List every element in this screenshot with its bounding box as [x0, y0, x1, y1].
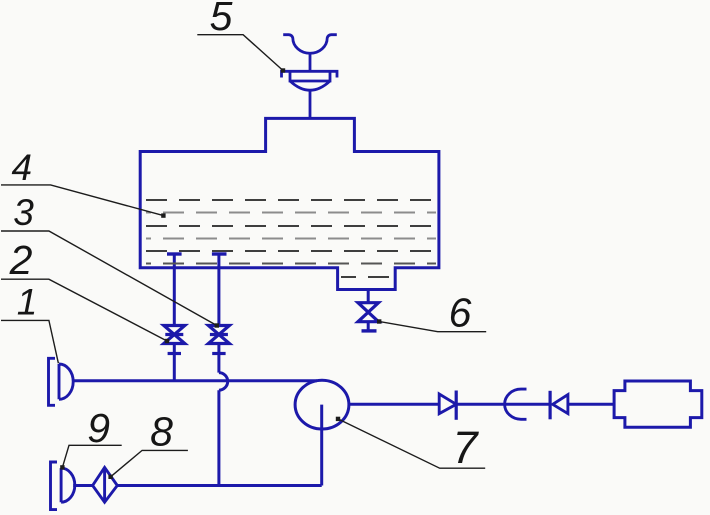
drain stem — [367, 290, 370, 303]
svg-text:3: 3 — [13, 192, 34, 233]
suction pipe B — [217, 254, 220, 326]
sump dashes — [341, 276, 393, 278]
main suction pipe — [73, 379, 318, 382]
svg-text:8: 8 — [150, 409, 173, 455]
leader 5 — [197, 35, 283, 71]
actuator block — [614, 381, 702, 427]
leader 6 — [379, 322, 486, 332]
check valve B seat bar — [548, 391, 551, 420]
valve 3 outlet pipe lower — [217, 390, 220, 485]
leader 4 — [1, 185, 163, 216]
pump outlet vertical pipe — [320, 405, 323, 486]
svg-text:5: 5 — [210, 0, 233, 39]
valve 3 — [208, 326, 229, 344]
svg-text:9: 9 — [87, 405, 110, 451]
breather cap plate — [282, 71, 338, 77]
check valve A seat bar — [455, 391, 458, 420]
valve 2 outlet tick — [168, 352, 181, 355]
tank outline — [140, 118, 439, 289]
filter 8 diamond — [93, 467, 118, 502]
valve 2 — [164, 326, 185, 344]
drain valve 6 end cap — [362, 329, 377, 332]
svg-text:2: 2 — [9, 237, 33, 283]
strainer 1 bracket — [49, 358, 56, 405]
breather stem upper — [309, 53, 312, 72]
suction pipe A cap — [167, 252, 182, 255]
leader lines — [1, 35, 486, 477]
strainer 9 bell — [61, 468, 75, 502]
pressure pipe pump to check valve — [349, 403, 439, 406]
svg-text:4: 4 — [12, 147, 33, 188]
leader 1 — [1, 320, 58, 363]
leader 8 — [111, 450, 188, 476]
liquid level dashes — [146, 200, 436, 277]
pipe to actuator — [568, 403, 614, 406]
drain valve 6 — [358, 303, 379, 322]
suction pipe B cap — [212, 252, 227, 255]
check valve A triangle — [439, 394, 456, 414]
leader 7 — [338, 419, 485, 468]
bottom return pipe — [117, 484, 321, 487]
valve 3 outlet tick — [212, 352, 225, 355]
svg-text:7: 7 — [452, 422, 479, 473]
coupling half socket — [505, 389, 527, 419]
leader 9 — [62, 445, 121, 467]
pipe bell9 to filter — [73, 484, 92, 487]
check valve B triangle — [553, 395, 568, 414]
strainer 9 bracket — [51, 462, 58, 510]
breather funnel 5 — [283, 35, 337, 54]
breather stem lower — [309, 91, 312, 119]
suction pipe A — [173, 254, 176, 326]
valve 3 outlet pipe upper — [217, 344, 220, 373]
drain valve 6 outlet stem — [367, 322, 370, 331]
leader 2 — [1, 279, 167, 341]
strainer 1 bell — [59, 364, 73, 399]
valve 2 outlet pipe — [173, 344, 176, 381]
pipe check valve to coupling — [456, 403, 550, 406]
leader dots — [60, 68, 381, 479]
pump 7 — [295, 380, 349, 429]
leader 3 — [1, 231, 217, 326]
svg-text:6: 6 — [449, 290, 472, 336]
breather bowl — [290, 71, 330, 90]
svg-text:1: 1 — [17, 282, 38, 323]
pipe crossing hop — [219, 373, 228, 391]
